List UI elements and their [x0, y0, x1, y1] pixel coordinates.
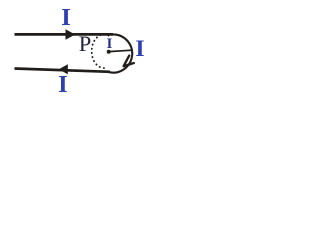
arrowhead current direction on loop arc	[124, 56, 134, 67]
label I bottom wire current	[58, 71, 68, 99]
arrowhead current direction on top wire	[66, 29, 76, 40]
dotted circle around point P	[92, 34, 109, 68]
label I right of loop	[135, 36, 144, 63]
wire top straight segment	[15, 33, 114, 36]
wire bottom straight segment	[15, 69, 111, 72]
label P point	[79, 31, 92, 57]
label I top wire current	[61, 4, 71, 32]
center dot of loop	[107, 50, 111, 54]
label I small at loop center	[107, 36, 113, 53]
wire loop arc	[108, 34, 132, 72]
arrowhead current direction on bottom wire	[59, 64, 68, 74]
radius line of loop	[109, 50, 132, 51]
